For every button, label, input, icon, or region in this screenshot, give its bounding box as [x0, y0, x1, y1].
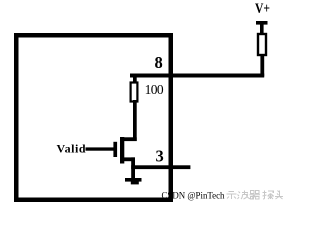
- ground: [125, 178, 142, 184]
- svg-text:8: 8: [155, 53, 163, 72]
- transistor Q1 drain lead: [122, 137, 137, 141]
- watermark CJK char 器: [250, 191, 261, 200]
- op-amp U1 comparator package box: [14, 33, 173, 202]
- resistor R1 (pull-up, top right): [258, 34, 266, 55]
- wire pin 8 horizontal: [130, 74, 264, 78]
- power V+ terminal bar: [256, 21, 268, 25]
- wire pin 3 horizontal: [131, 165, 190, 169]
- watermark CJK char 头: [275, 191, 283, 200]
- watermark CJK char 探: [263, 191, 275, 200]
- wire resistor R1 bottom to pin 8 wire: [260, 54, 264, 77]
- watermark CJK char 波: [238, 191, 251, 200]
- transistor Q1 gate bar: [113, 142, 117, 157]
- wire V+ terminal to resistor R1: [260, 23, 264, 35]
- wire source down to ground: [131, 157, 135, 178]
- watermark CJK char 示: [227, 192, 237, 200]
- transistor Q1 source lead: [122, 157, 135, 161]
- transistor Q1 channel bar: [120, 137, 124, 164]
- svg-text:Valid: Valid: [57, 142, 86, 156]
- wire gate from Valid: [86, 147, 114, 150]
- svg-text:3: 3: [156, 147, 164, 166]
- svg-text:100: 100: [145, 82, 164, 97]
- wire junction down to resistor R2: [133, 74, 137, 83]
- resistor R2 100 ohm: [131, 83, 138, 102]
- wire resistor R2 to transistor Q1 drain: [133, 100, 137, 141]
- svg-text:V+: V+: [255, 1, 270, 17]
